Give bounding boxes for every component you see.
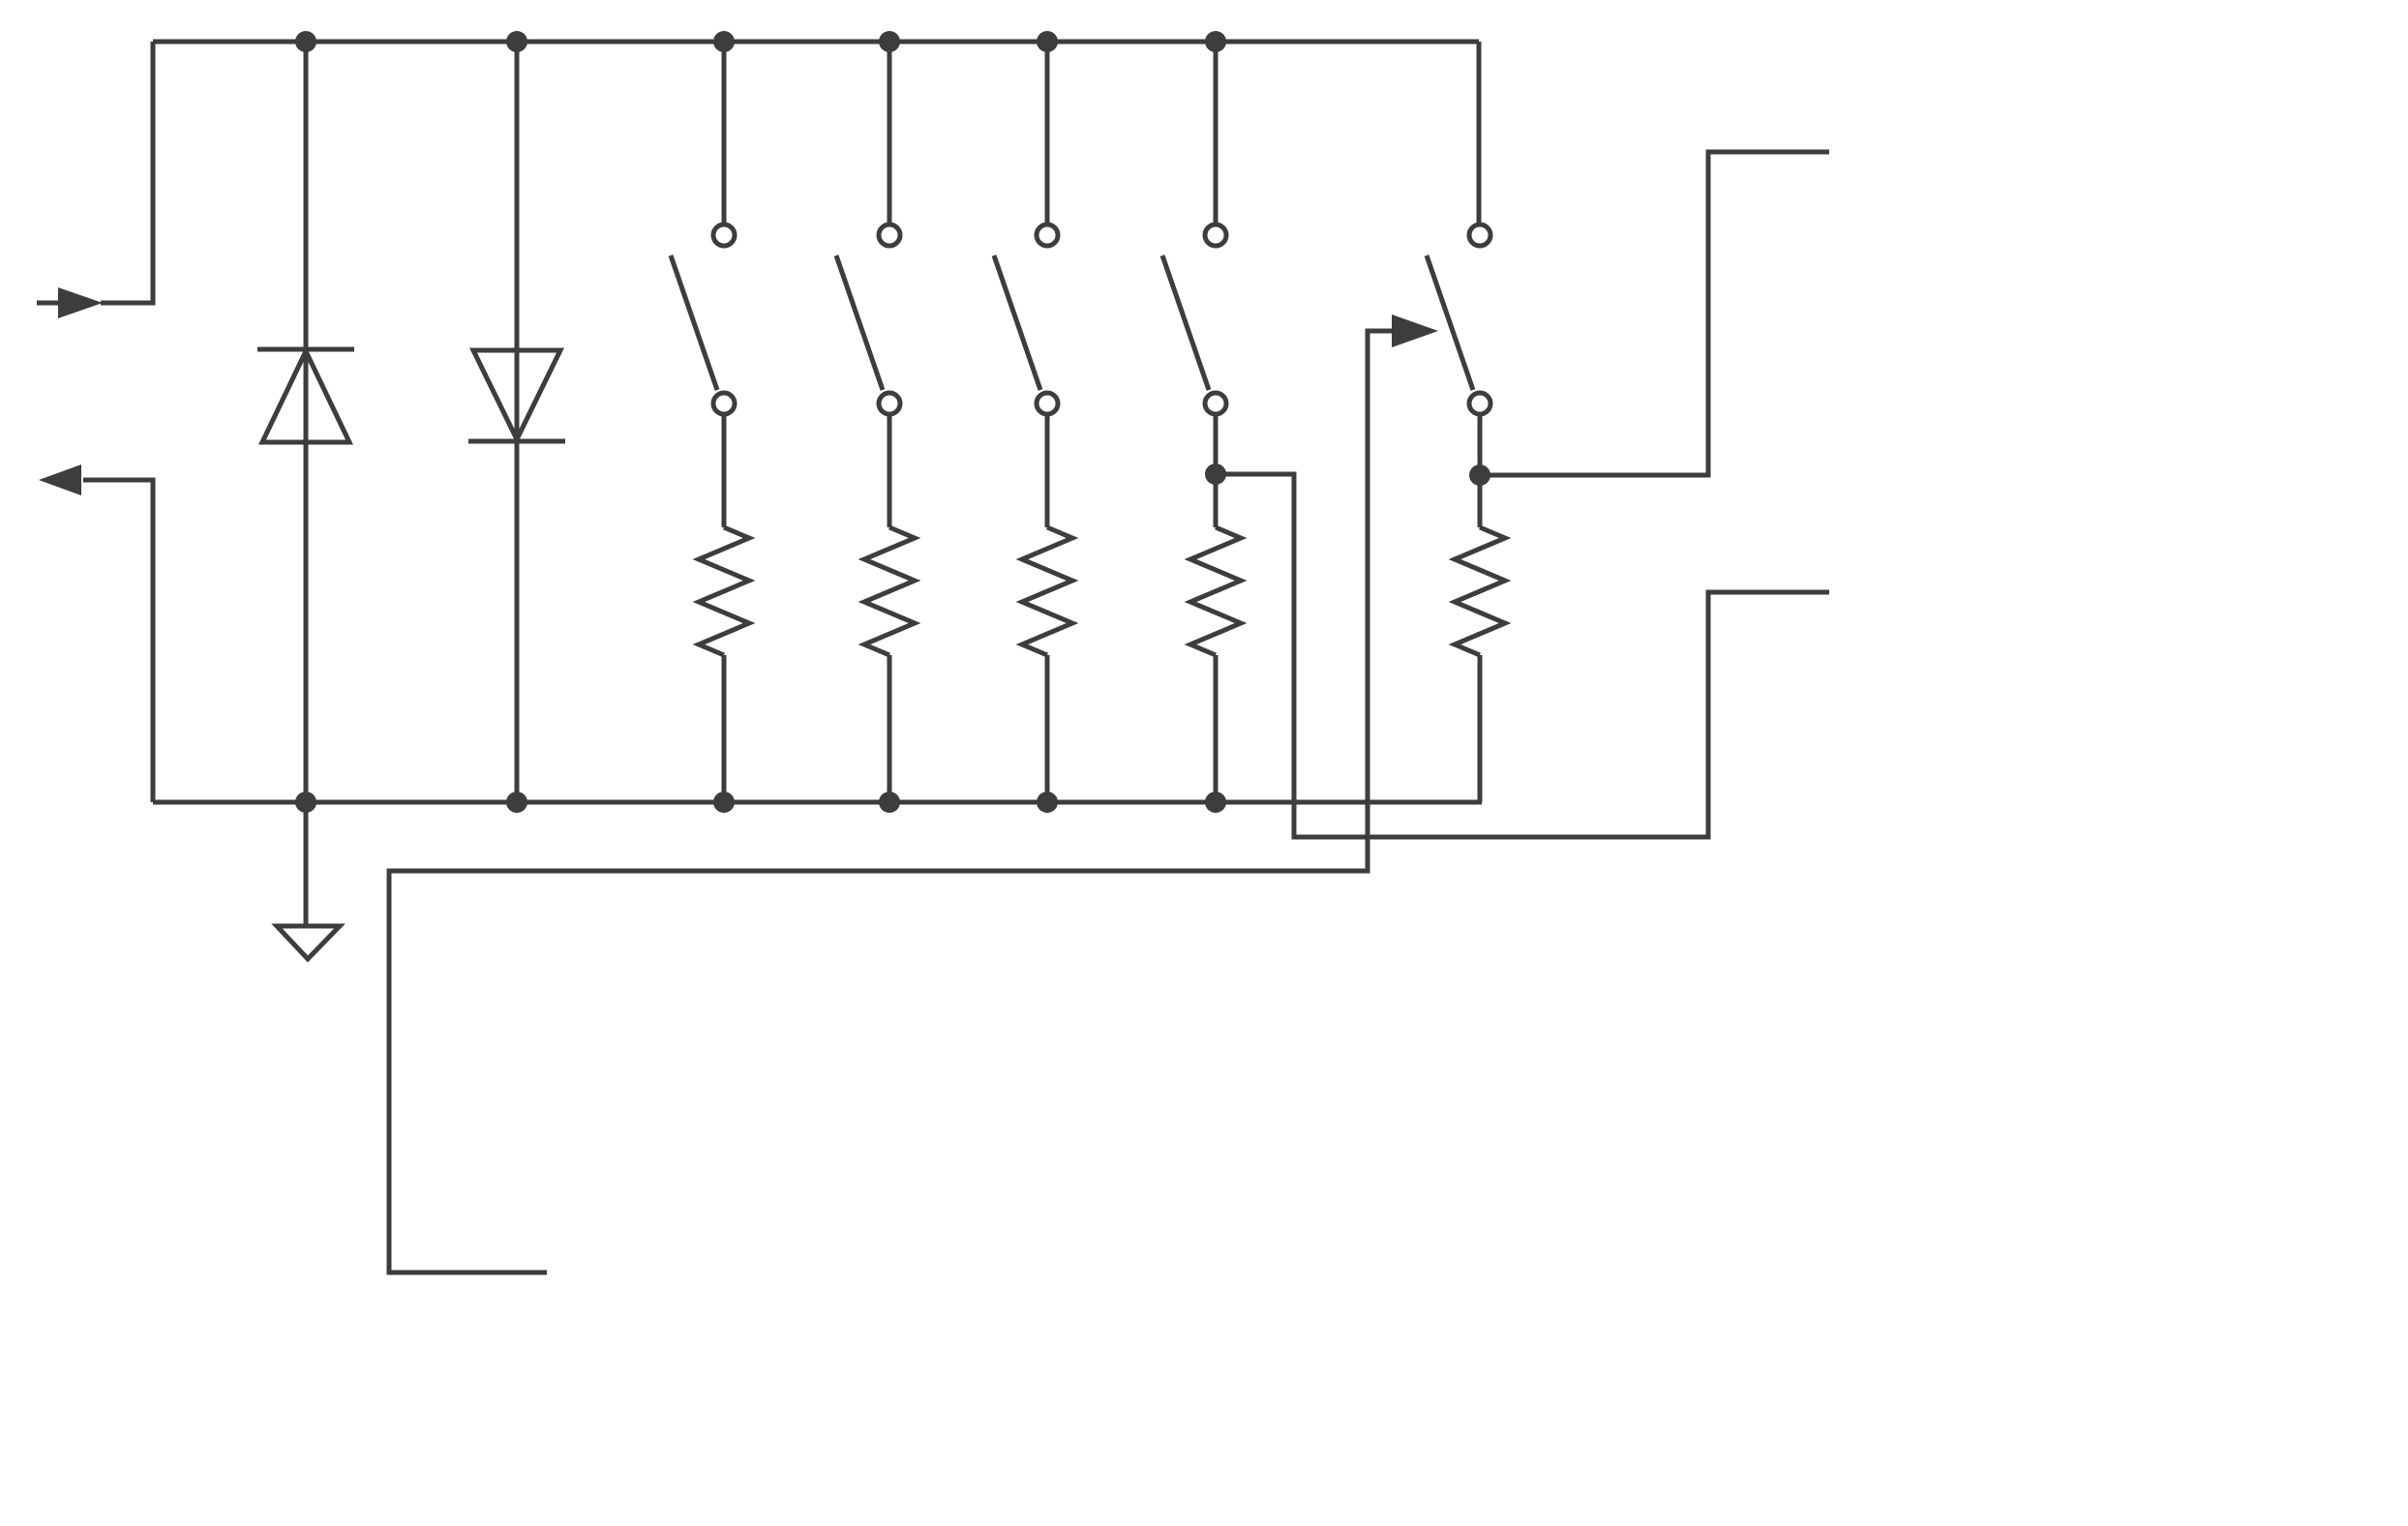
wire S2 to R2: [1214, 414, 1219, 527]
node S2 R2 junction: [1205, 464, 1226, 485]
node bottom bus R3: [1037, 792, 1058, 813]
node top bus S2: [1205, 31, 1226, 52]
resistor R4: [864, 527, 915, 655]
node bottom bus R2: [1205, 792, 1226, 813]
node top bus D1: [295, 31, 316, 52]
node bottom bus R4: [879, 792, 900, 813]
switch S5: [722, 42, 727, 224]
wire S4 to R4: [888, 414, 892, 527]
wire R3 to bus: [1045, 655, 1050, 802]
wire bottom bus: [153, 800, 1482, 805]
wire OR output to S1 control: [389, 331, 1394, 1272]
wire S1 top feed: [1477, 42, 1482, 224]
node bottom bus R5: [713, 792, 735, 813]
wire return branch bottom-left: [83, 480, 153, 802]
diode D2: [515, 42, 520, 802]
switch S1: [1469, 224, 1490, 246]
wire S5 to R5: [722, 414, 727, 527]
wire R5 to bus: [722, 655, 727, 802]
node top bus S3: [1037, 31, 1058, 52]
diode D1: [304, 42, 309, 802]
wire R1 node to G1 input: [1480, 152, 1829, 475]
ground: [304, 802, 309, 926]
wire S1 to R1: [1478, 414, 1483, 527]
switch S3: [1045, 42, 1050, 224]
resistor R2: [1190, 527, 1241, 655]
wire R4 to bus: [888, 655, 892, 802]
switch S2: [1214, 42, 1219, 224]
node top bus S5: [713, 31, 735, 52]
return arrow: [39, 464, 81, 495]
resistor R5: [699, 527, 749, 655]
node top bus D2: [506, 31, 527, 52]
node S1 R1 junction: [1469, 464, 1490, 486]
input arrow IIN: [37, 301, 60, 306]
node bottom bus D2: [506, 792, 527, 813]
wire S3 to R3: [1045, 414, 1050, 527]
wire top bus: [153, 40, 1479, 45]
wire R2 node to G2 input: [1216, 474, 1829, 837]
wire R1 to bus: [1478, 655, 1483, 802]
wire R2 to bus: [1214, 655, 1219, 802]
wire input branch top-left: [101, 42, 153, 303]
resistor R3: [1022, 527, 1072, 655]
switch S4: [888, 42, 892, 224]
node bottom bus D1: [295, 792, 316, 813]
resistor R1: [1455, 527, 1505, 655]
S1 control arrowhead: [1392, 314, 1438, 347]
node top bus S4: [879, 31, 900, 52]
